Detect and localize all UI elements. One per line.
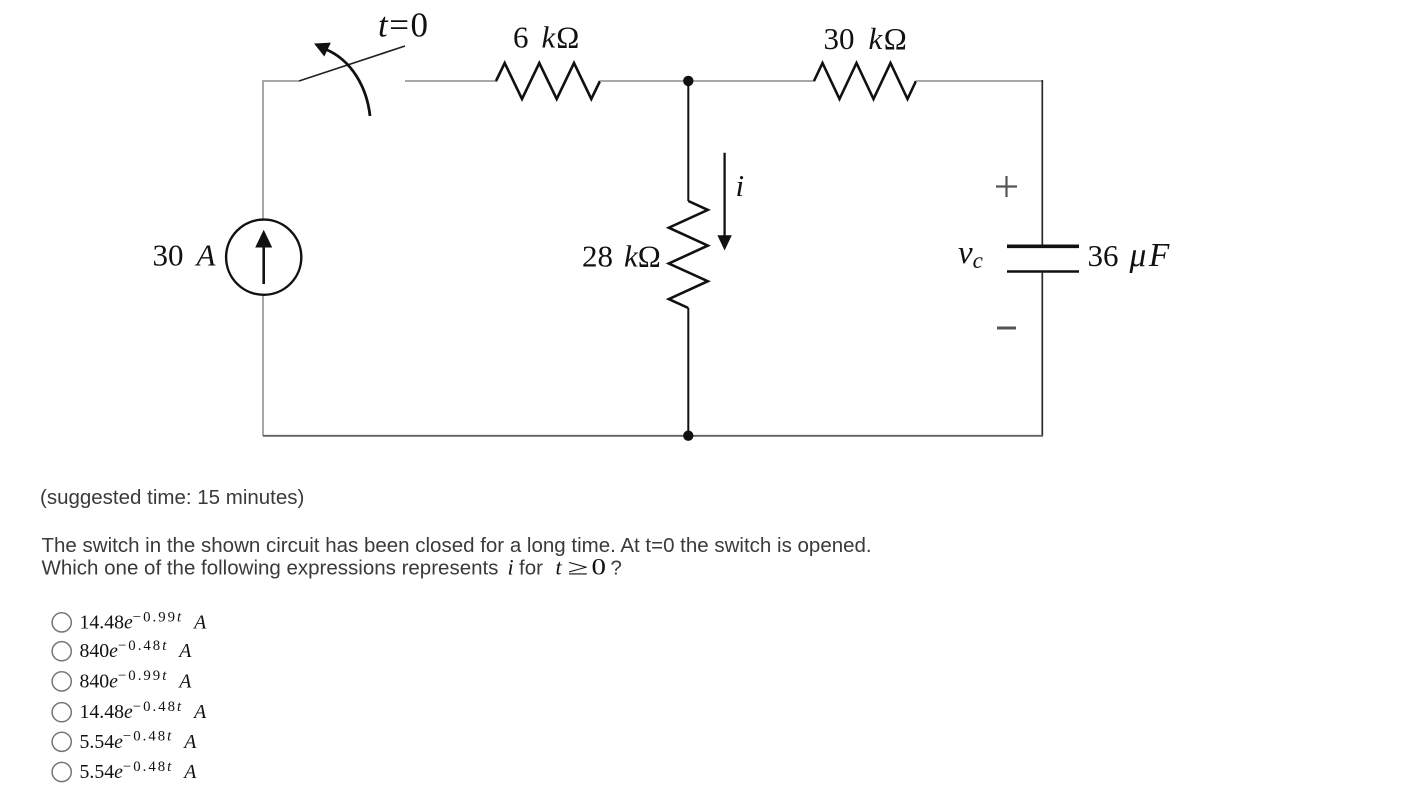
resistor R2 30k zigzag	[814, 63, 916, 99]
resistor R3 28k vertical zigzag	[669, 201, 708, 308]
svg-text:(suggested time: 15 minutes): (suggested time: 15 minutes)	[40, 486, 304, 509]
current source I1 arrowhead	[255, 230, 272, 248]
current i arrowhead	[717, 235, 731, 250]
label plus sign	[996, 176, 1017, 197]
current source I1 circle	[226, 220, 301, 295]
capacitor C1 bottom plate	[1007, 270, 1079, 272]
wire R2 to top-right corner	[916, 80, 1043, 82]
svg-text:t=0: t=0	[378, 6, 429, 45]
svg-text:for: for	[519, 557, 543, 580]
wire R1 to node A	[600, 80, 688, 82]
capacitor C1 top plate	[1007, 245, 1079, 249]
svg-text:5.54e−0.48t A: 5.54e−0.48t A	[80, 729, 198, 753]
svg-text:28kΩ: 28kΩ	[582, 239, 661, 274]
svg-text:0: 0	[592, 555, 607, 581]
option 5 radio	[52, 732, 71, 751]
wire switch left stub	[262, 80, 299, 82]
svg-text:840e−0.48t A: 840e−0.48t A	[80, 638, 193, 662]
svg-text:36μF: 36μF	[1088, 237, 1172, 274]
switch SW1 arrowhead	[315, 43, 330, 55]
option 1 radio	[52, 613, 71, 632]
bottom junction dot	[683, 431, 693, 441]
svg-text:30A: 30A	[153, 238, 217, 273]
svg-text:i: i	[508, 555, 514, 580]
svg-text:5.54e−0.48t A: 5.54e−0.48t A	[80, 759, 198, 783]
svg-text:14.48e−0.99t A: 14.48e−0.99t A	[80, 609, 208, 633]
svg-text:840e−0.99t A: 840e−0.99t A	[80, 668, 193, 692]
wire node A down to R3	[687, 81, 689, 201]
option 6 radio	[52, 762, 71, 781]
svg-text:The switch in the shown circui: The switch in the shown circuit has been…	[42, 534, 872, 557]
option 2 radio	[52, 642, 71, 661]
wire left vertical top segment	[262, 80, 264, 220]
label minus sign	[997, 327, 1016, 330]
svg-text:30kΩ: 30kΩ	[824, 21, 907, 56]
wire left vertical bottom segment	[262, 295, 264, 436]
current source I1 arrow shaft	[262, 247, 265, 284]
svg-text:vc: vc	[958, 235, 983, 273]
svg-text:?: ?	[611, 557, 622, 580]
switch SW1 blade	[299, 46, 405, 81]
wire right vertical to capacitor	[1041, 80, 1043, 246]
wire capacitor to bottom-right corner	[1041, 272, 1043, 437]
svg-text:i: i	[736, 168, 745, 203]
svg-text:≥: ≥	[568, 555, 589, 580]
node A junction dot	[683, 76, 693, 86]
svg-text:14.48e−0.48t A: 14.48e−0.48t A	[80, 699, 208, 723]
option 3 radio	[52, 672, 71, 691]
svg-text:t: t	[556, 555, 563, 580]
current i arrow shaft	[723, 153, 725, 237]
switch SW1 opening arc	[325, 49, 370, 116]
wire switch right stub	[405, 80, 497, 82]
svg-text:Which one of the following exp: Which one of the following expressions r…	[42, 557, 499, 580]
option 4 radio	[52, 703, 71, 722]
resistor R1 6k zigzag	[496, 63, 600, 99]
svg-text:6kΩ: 6kΩ	[513, 20, 579, 55]
wire node A to R2	[688, 80, 815, 82]
wire R3 to bottom node	[687, 308, 689, 436]
wire bottom rail	[263, 435, 1043, 437]
